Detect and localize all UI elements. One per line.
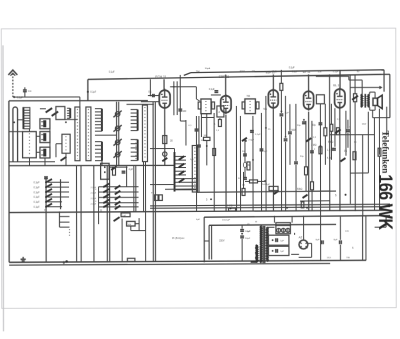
svg-text:0,1µF: 0,1µF (34, 197, 41, 199)
svg-text:0,1µF: 0,1µF (289, 67, 295, 69)
svg-text:0,1µF: 0,1µF (34, 192, 41, 194)
svg-text:50kΩ: 50kΩ (297, 189, 303, 191)
svg-text:0,1µF: 0,1µF (34, 182, 41, 184)
svg-text:0,1µF: 0,1µF (34, 187, 41, 189)
svg-text:0,1µF: 0,1µF (333, 71, 339, 73)
svg-text:Ω: Ω (100, 209, 102, 212)
svg-text:EF 11: EF 11 (303, 70, 311, 74)
svg-text:0,1µF: 0,1µF (34, 207, 41, 209)
svg-text:1µF: 1µF (247, 231, 251, 233)
svg-text:1µF: 1µF (122, 215, 126, 217)
svg-text:30µA: 30µA (205, 67, 211, 70)
svg-text:47kΩ: 47kΩ (271, 71, 277, 73)
svg-text:1µF: 1µF (280, 240, 284, 242)
svg-text:0,1µF: 0,1µF (209, 89, 215, 91)
svg-text:2,5µF: 2,5µF (248, 139, 254, 141)
svg-text:150V: 150V (219, 240, 225, 242)
svg-text:2x0,1µF: 2x0,1µF (222, 219, 231, 221)
svg-text:Telefunken: Telefunken (380, 131, 390, 174)
svg-text:1 MΩ: 1 MΩ (227, 205, 233, 207)
svg-text:⏚: ⏚ (62, 260, 65, 265)
svg-text:0,1µF: 0,1µF (34, 202, 41, 204)
svg-text:0,1µF: 0,1µF (109, 71, 115, 73)
svg-text:50µF: 50µF (245, 238, 251, 240)
svg-text:5000: 5000 (201, 140, 207, 142)
svg-text:1µF: 1µF (280, 251, 284, 253)
svg-text:IP-(B.Ω)xxx: IP-(B.Ω)xxx (172, 237, 185, 240)
svg-text:m: m (44, 210, 46, 212)
svg-text:5000: 5000 (240, 71, 246, 73)
svg-text:8µF: 8µF (316, 239, 320, 241)
svg-text:2x0,1µF: 2x0,1µF (262, 184, 271, 186)
svg-text:4µF: 4µF (196, 219, 200, 221)
svg-text:4 µF: 4 µF (128, 169, 133, 171)
svg-text:1µF: 1µF (190, 159, 194, 161)
svg-text:2,5µF: 2,5µF (91, 204, 97, 206)
svg-text:50kΩ: 50kΩ (328, 142, 334, 144)
svg-text:EL 11: EL 11 (333, 83, 341, 87)
svg-text:0,1µF: 0,1µF (90, 92, 96, 94)
svg-text:8µF: 8µF (334, 239, 338, 241)
svg-text:0,1µF: 0,1µF (292, 71, 298, 73)
svg-text:166 WK: 166 WK (374, 174, 396, 230)
svg-text:0,1µF: 0,1µF (255, 134, 261, 136)
svg-text:EBF 11: EBF 11 (219, 75, 230, 79)
svg-text:2,5µF: 2,5µF (91, 198, 97, 200)
svg-text:ECH 11: ECH 11 (155, 75, 166, 79)
svg-text:1µF: 1µF (263, 151, 267, 153)
svg-text:2,5µF: 2,5µF (91, 193, 97, 195)
